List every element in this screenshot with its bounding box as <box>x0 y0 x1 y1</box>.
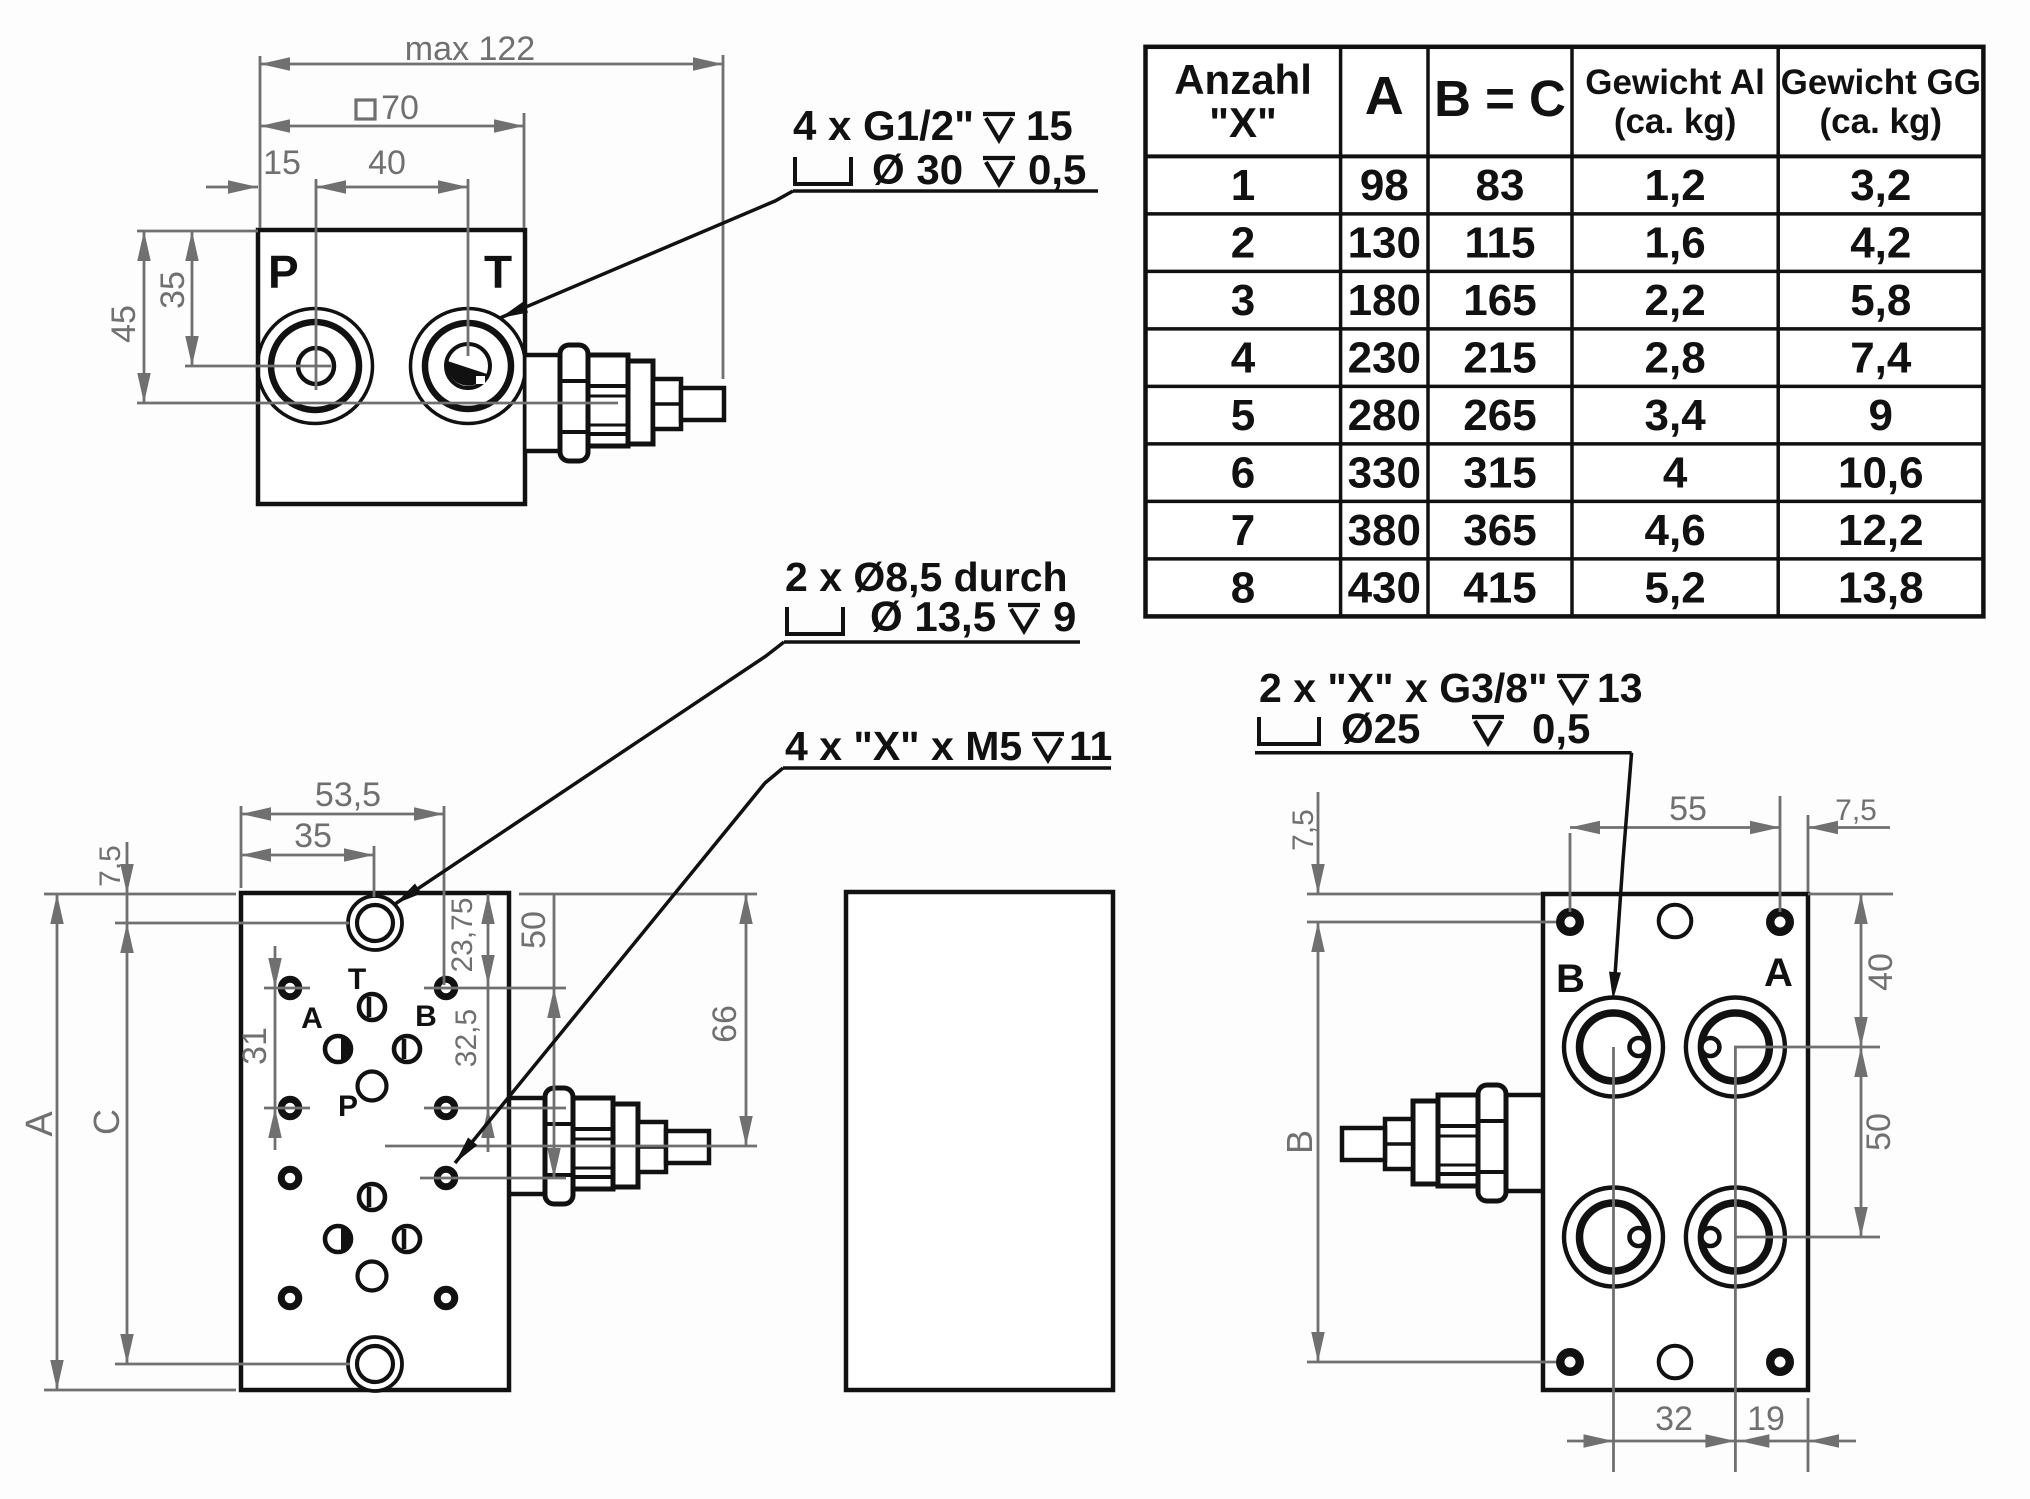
svg-text:330: 330 <box>1348 449 1421 498</box>
svg-text:B: B <box>1279 1130 1320 1154</box>
svg-text:32,5: 32,5 <box>450 1009 483 1067</box>
view4 dimension 55 and 7,5 top <box>1570 790 1890 912</box>
view4 block outline <box>1543 894 1808 1390</box>
svg-text:7,5: 7,5 <box>1835 794 1877 827</box>
station port B <box>394 1036 420 1062</box>
relief valve: adjuster step <box>1385 1119 1413 1169</box>
station port T <box>359 994 385 1020</box>
view2 dimension 50 <box>515 894 561 1178</box>
station port T <box>359 1184 385 1210</box>
svg-text:B: B <box>1556 957 1585 1001</box>
svg-text:11: 11 <box>1069 723 1112 769</box>
view4 bottom plain hole <box>1659 1346 1692 1379</box>
view2 dimension 66 <box>519 894 757 1146</box>
callout 2 x X x G3/8 <box>1255 665 1643 1000</box>
svg-text:4,2: 4,2 <box>1850 219 1911 268</box>
relief valve: threaded body <box>588 355 628 446</box>
svg-text:280: 280 <box>1348 391 1421 440</box>
view2 bottom counterbore hole <box>348 1337 402 1391</box>
svg-text:55: 55 <box>1669 790 1707 828</box>
relief valve: stem tip <box>666 1131 709 1163</box>
relief valve cartridge: neck <box>1506 1095 1540 1191</box>
callout 4 x G1/2 <box>498 102 1098 324</box>
svg-text:"X": "X" <box>1209 99 1277 146</box>
view2 M5 mounting holes <box>281 979 455 1307</box>
svg-text:15: 15 <box>263 144 301 182</box>
svg-text:A: A <box>301 1002 323 1035</box>
view4 port A row2 <box>1686 1188 1785 1287</box>
svg-text:4: 4 <box>1663 449 1688 498</box>
callout 4 x X x M5 <box>450 723 1112 1167</box>
svg-text:7,5: 7,5 <box>1287 809 1320 851</box>
svg-text:Ø 30: Ø 30 <box>872 146 963 193</box>
svg-text:Ø 13,5: Ø 13,5 <box>870 593 996 640</box>
svg-text:4,6: 4,6 <box>1645 506 1706 555</box>
svg-text:130: 130 <box>1348 219 1421 268</box>
svg-text:A: A <box>1365 66 1404 126</box>
view2 small-hole reference stubs <box>420 988 566 1178</box>
relief valve: stem tip <box>1342 1128 1385 1160</box>
relief valve: collar <box>613 1104 638 1187</box>
svg-text:70: 70 <box>381 89 419 127</box>
view2 dimension C and 7,5 <box>86 842 350 1364</box>
svg-text:4: 4 <box>1231 334 1256 383</box>
svg-text:T: T <box>348 963 366 996</box>
station port P <box>358 1262 387 1291</box>
svg-text:B = C: B = C <box>1434 70 1566 127</box>
svg-text:415: 415 <box>1463 564 1536 613</box>
view2 relief valve fitting <box>509 1088 709 1204</box>
view1 valve axis centerline <box>137 402 618 405</box>
view2 dimension 53,5 <box>241 776 444 985</box>
relief valve: adjuster step <box>653 379 681 429</box>
svg-text:9: 9 <box>1869 391 1893 440</box>
svg-text:1,2: 1,2 <box>1645 161 1706 210</box>
view1 port P <box>258 309 373 424</box>
svg-text:2,2: 2,2 <box>1645 276 1706 325</box>
station port A <box>325 1036 351 1062</box>
svg-text:3: 3 <box>1231 276 1255 325</box>
svg-text:4 x "X" x M5: 4 x "X" x M5 <box>785 723 1022 769</box>
relief valve cartridge: neck <box>512 1098 546 1194</box>
svg-text:6: 6 <box>1231 449 1255 498</box>
svg-text:(ca. kg): (ca. kg) <box>1820 102 1943 141</box>
svg-text:Gewicht GG: Gewicht GG <box>1781 63 1981 102</box>
view1 dimension: 45 <box>105 231 258 403</box>
view4 dimension 7,5 left <box>1287 792 1541 894</box>
svg-text:40: 40 <box>368 144 406 182</box>
view2 dimension 23,75 and 32,5 <box>446 894 495 1152</box>
table grid <box>1146 47 1984 617</box>
svg-text:7,5: 7,5 <box>94 845 127 887</box>
svg-text:31: 31 <box>236 1027 274 1065</box>
view4 dimensions 32 and 19 <box>1567 1395 1856 1472</box>
svg-text:2,8: 2,8 <box>1645 334 1706 383</box>
svg-text:max 122: max 122 <box>405 30 535 68</box>
relief valve: threaded body <box>1438 1095 1478 1186</box>
svg-text:53,5: 53,5 <box>315 776 381 814</box>
svg-text:315: 315 <box>1463 449 1536 498</box>
relief valve: hex nut <box>560 345 588 461</box>
view1 dimension: 35 <box>154 231 331 366</box>
svg-text:12,2: 12,2 <box>1838 506 1924 555</box>
svg-text:15: 15 <box>1026 102 1073 149</box>
svg-text:165: 165 <box>1463 276 1536 325</box>
view2 dimension 35 <box>241 817 374 897</box>
svg-text:8: 8 <box>1231 564 1255 613</box>
view4 port A row1 <box>1686 998 1785 1097</box>
view2 dimension 31 <box>236 946 310 1150</box>
svg-text:A: A <box>19 1111 61 1137</box>
relief valve: stem tip <box>681 388 724 420</box>
svg-text:7,4: 7,4 <box>1850 334 1912 383</box>
view2 valve station 2 <box>325 1184 420 1291</box>
svg-text:2: 2 <box>1231 219 1255 268</box>
view3 side view outline <box>846 892 1113 1390</box>
svg-text:23,75: 23,75 <box>446 897 479 972</box>
svg-text:35: 35 <box>294 817 332 855</box>
svg-text:(ca. kg): (ca. kg) <box>1614 102 1737 141</box>
svg-text:7: 7 <box>1231 506 1255 555</box>
svg-text:0,5: 0,5 <box>1532 705 1590 752</box>
relief valve: threaded body <box>573 1098 613 1189</box>
view4 top plain hole <box>1659 905 1692 938</box>
svg-text:45: 45 <box>105 305 143 343</box>
svg-text:380: 380 <box>1348 506 1421 555</box>
svg-text:83: 83 <box>1476 161 1525 210</box>
svg-text:40: 40 <box>1862 953 1900 991</box>
view4 corner mounting holes <box>1560 912 1790 1372</box>
svg-text:430: 430 <box>1348 564 1421 613</box>
table data rows <box>1231 161 1924 613</box>
svg-text:A: A <box>1764 951 1793 995</box>
svg-text:5,2: 5,2 <box>1645 564 1706 613</box>
view4 relief valve fitting (mirrored) <box>1342 1085 1542 1201</box>
svg-text:10,6: 10,6 <box>1838 449 1924 498</box>
svg-text:19: 19 <box>1747 1400 1785 1438</box>
svg-text:365: 365 <box>1463 506 1536 555</box>
svg-text:3,2: 3,2 <box>1850 161 1911 210</box>
callout 2 x diam 8,5 durch <box>392 554 1080 909</box>
svg-text:66: 66 <box>706 1005 744 1043</box>
svg-text:98: 98 <box>1360 161 1409 210</box>
svg-text:50: 50 <box>515 911 553 949</box>
view4 dimension B <box>1279 922 1556 1362</box>
view1 dimension: square 70 <box>260 89 524 228</box>
svg-text:265: 265 <box>1463 391 1536 440</box>
station port P <box>358 1072 387 1101</box>
svg-text:T: T <box>484 246 512 298</box>
view1 dimension: 15 and 40 <box>206 144 468 390</box>
view2 dimension A <box>19 894 236 1390</box>
view1 port T <box>411 309 526 424</box>
view2 valve station 1 <box>301 963 437 1123</box>
view2 top counterbore hole <box>348 896 402 950</box>
svg-text:1,6: 1,6 <box>1645 219 1706 268</box>
view1 dimension: max 122 <box>260 30 723 379</box>
svg-text:50: 50 <box>1860 1113 1898 1151</box>
view2 valve axis centerline <box>385 1145 757 1148</box>
svg-text:P: P <box>338 1090 358 1123</box>
table header <box>1174 56 1981 146</box>
station port B <box>394 1226 420 1252</box>
svg-text:230: 230 <box>1348 334 1421 383</box>
svg-text:B: B <box>415 1000 437 1033</box>
view1 relief valve fitting <box>524 345 724 461</box>
view2 block outline <box>241 893 509 1390</box>
station port A <box>325 1226 351 1252</box>
relief valve: hex nut <box>1478 1085 1506 1201</box>
svg-text:13: 13 <box>1597 665 1643 711</box>
view4 port column centerlines <box>1614 1047 1736 1395</box>
svg-text:C: C <box>86 1109 127 1135</box>
svg-text:Ø25: Ø25 <box>1341 705 1420 752</box>
svg-text:180: 180 <box>1348 276 1421 325</box>
svg-text:4 x G1/2": 4 x G1/2" <box>793 102 974 149</box>
view4 dimension 40 <box>1808 894 1900 1047</box>
svg-text:13,8: 13,8 <box>1838 564 1924 613</box>
svg-text:3,4: 3,4 <box>1645 391 1707 440</box>
svg-text:1: 1 <box>1231 161 1255 210</box>
relief valve: adjuster step <box>638 1122 666 1172</box>
svg-text:P: P <box>268 246 299 298</box>
relief valve: collar <box>1413 1101 1438 1184</box>
svg-text:32: 32 <box>1655 1400 1693 1438</box>
svg-text:Gewicht Al: Gewicht Al <box>1585 63 1765 102</box>
view4 port B row1 <box>1564 998 1663 1097</box>
relief valve: collar <box>628 361 653 444</box>
svg-text:Anzahl: Anzahl <box>1174 56 1312 103</box>
view4 port B row2 <box>1564 1188 1663 1287</box>
svg-text:9: 9 <box>1053 593 1076 640</box>
svg-text:115: 115 <box>1465 219 1536 268</box>
view1 block outline <box>258 230 525 504</box>
svg-text:5,8: 5,8 <box>1850 276 1911 325</box>
svg-text:35: 35 <box>154 271 192 309</box>
svg-text:0,5: 0,5 <box>1028 146 1086 193</box>
relief valve: hex nut <box>545 1088 573 1204</box>
view4 dimension 50 <box>1734 1047 1898 1237</box>
svg-text:5: 5 <box>1231 391 1255 440</box>
svg-text:215: 215 <box>1463 334 1536 383</box>
relief valve cartridge: neck <box>527 355 561 451</box>
